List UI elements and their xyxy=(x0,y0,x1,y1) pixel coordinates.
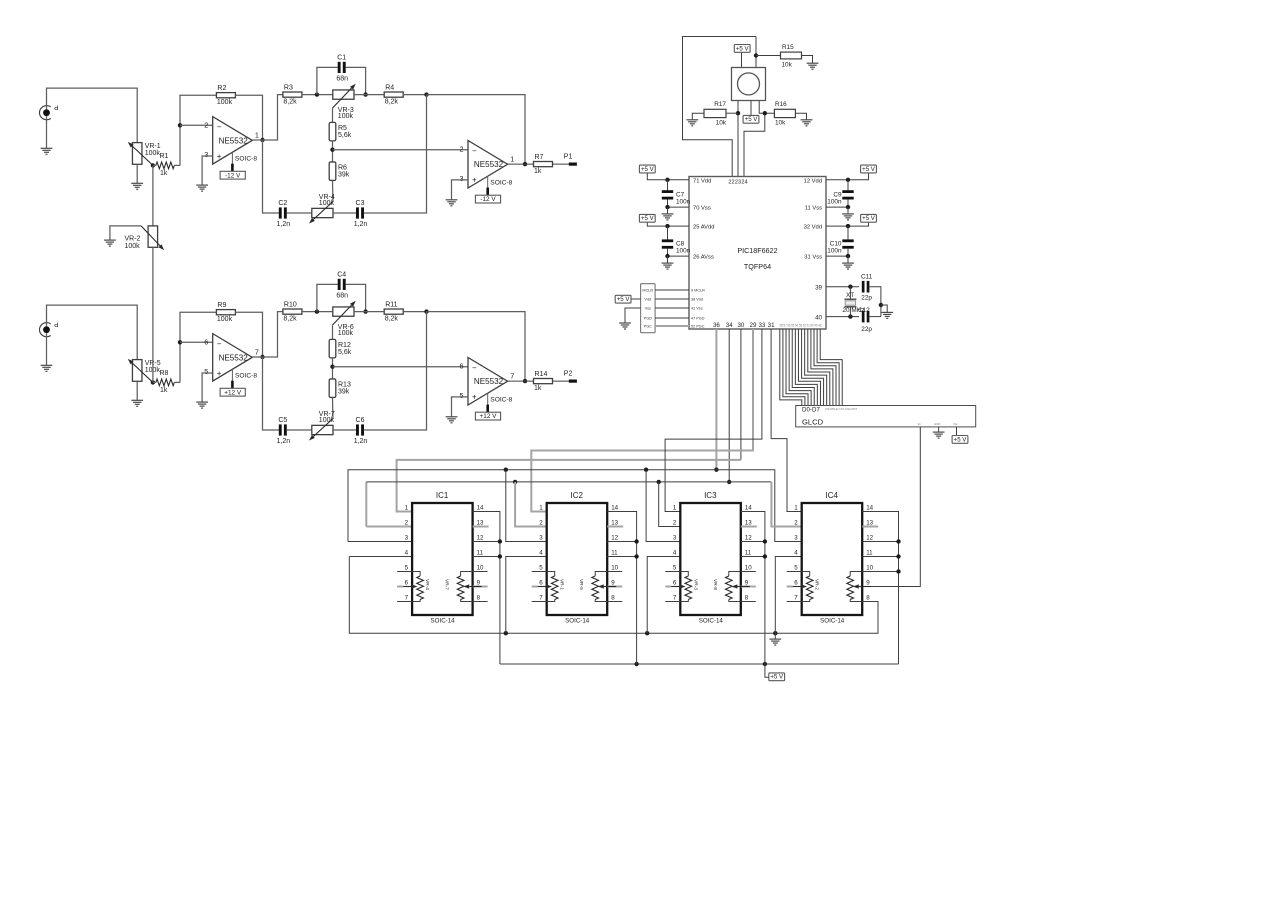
node xyxy=(714,468,718,472)
wire to terminal P1 xyxy=(553,163,569,165)
node C branch right xyxy=(363,309,367,313)
svg-text:8,2k: 8,2k xyxy=(385,316,399,323)
svg-text:VR-3: VR-3 xyxy=(692,579,698,590)
power +5V digipots xyxy=(769,673,785,681)
op-amp U1b NE5532 xyxy=(468,141,508,189)
svg-text:41 Vss: 41 Vss xyxy=(691,307,703,311)
svg-text:+5 V: +5 V xyxy=(641,215,655,222)
svg-text:SOIC-14: SOIC-14 xyxy=(431,618,456,625)
wire bus line 12 xyxy=(817,329,839,406)
ground xyxy=(104,239,116,241)
potentiometer VR-2 100k xyxy=(148,226,158,247)
wire Vdd32 to +5V xyxy=(826,223,869,227)
svg-text:58 57 56 55 54 53 52 51 50 49: 58 57 56 55 54 53 52 51 50 49 48 xyxy=(780,323,822,327)
ground xyxy=(446,416,458,418)
svg-text:1: 1 xyxy=(794,505,798,512)
svg-text:IC2: IC2 xyxy=(570,491,583,500)
svg-text:C11: C11 xyxy=(861,274,873,281)
svg-text:25 AVdd: 25 AVdd xyxy=(693,225,715,231)
wire R17 left to ground xyxy=(692,113,704,120)
svg-text:36: 36 xyxy=(713,322,720,329)
svg-text:P2: P2 xyxy=(564,370,573,377)
node xyxy=(763,539,767,543)
resistor R7 1k xyxy=(534,162,553,167)
svg-text:−: − xyxy=(217,340,222,349)
potentiometer VR-4 inside IC1 (left) xyxy=(412,572,420,577)
wire xyxy=(302,311,333,313)
node xyxy=(665,224,669,228)
ground xyxy=(131,399,143,401)
wire to inverting input xyxy=(180,95,217,165)
svg-text:100k: 100k xyxy=(338,113,354,120)
svg-text:10k: 10k xyxy=(716,120,727,127)
svg-text:10: 10 xyxy=(745,565,752,572)
svg-text:8: 8 xyxy=(745,595,749,602)
svg-text:C1: C1 xyxy=(337,54,346,61)
node top right xyxy=(424,309,428,313)
connector ICSP header xyxy=(641,284,656,333)
IC U5 PIC18F6622 TQFP64 xyxy=(689,177,826,330)
wire xyxy=(870,287,881,317)
node A junction xyxy=(736,111,740,115)
svg-text:R2: R2 xyxy=(217,85,226,92)
node feedback junction xyxy=(178,340,182,344)
svg-text:22p: 22p xyxy=(861,326,872,333)
svg-text:100k: 100k xyxy=(145,150,161,157)
wire xyxy=(647,223,689,227)
wire xyxy=(287,429,312,431)
svg-text:R4: R4 xyxy=(385,85,394,92)
svg-text:2: 2 xyxy=(673,520,677,527)
wire non-inverting input to ground xyxy=(202,373,213,402)
resistor R14 1k xyxy=(534,379,553,384)
potentiometer VR-6 100k xyxy=(333,307,354,316)
wire pin40 xyxy=(826,316,859,318)
wire xyxy=(646,470,680,542)
svg-text:52 PGC: 52 PGC xyxy=(691,325,705,329)
svg-text:1k: 1k xyxy=(160,170,168,177)
svg-text:+12 V: +12 V xyxy=(224,389,242,396)
wire to second opamp inverting input xyxy=(333,149,469,151)
ground xyxy=(847,256,849,263)
svg-text:IC3: IC3 xyxy=(704,491,717,500)
node xyxy=(846,178,850,182)
ground xyxy=(196,184,208,186)
svg-text:4: 4 xyxy=(405,550,409,557)
svg-text:23: 23 xyxy=(735,180,741,186)
wire bus line 1 xyxy=(783,329,805,406)
node wiper junction xyxy=(151,380,155,384)
resistor R17 10k xyxy=(704,109,726,117)
svg-text:1,2n: 1,2n xyxy=(276,221,290,228)
wire bus line 3 xyxy=(789,329,811,406)
svg-text:12: 12 xyxy=(866,535,873,542)
svg-text:5: 5 xyxy=(794,565,798,572)
wire bus line 10 xyxy=(811,329,833,406)
svg-text:9: 9 xyxy=(866,580,870,587)
svg-text:38 Vdd: 38 Vdd xyxy=(691,298,703,302)
wire rail to top node xyxy=(364,312,427,430)
svg-text:22: 22 xyxy=(728,180,734,186)
svg-text:SOIC-14: SOIC-14 xyxy=(565,618,590,625)
svg-text:2: 2 xyxy=(794,520,798,527)
power +5V Vdd32 xyxy=(861,214,877,222)
wire IC4 pin9 to GLCD Vo xyxy=(862,427,920,587)
svg-text:3: 3 xyxy=(460,174,464,183)
svg-text:11: 11 xyxy=(866,550,873,557)
node xyxy=(727,480,731,484)
module GLCD xyxy=(796,406,976,427)
svg-text:100n: 100n xyxy=(676,198,691,205)
svg-text:1,2n: 1,2n xyxy=(276,438,290,445)
svg-text:12: 12 xyxy=(745,535,752,542)
capacitor C1 68n xyxy=(317,67,338,94)
op-amp U2b NE5532 xyxy=(468,358,508,406)
wire ground rail pin4s xyxy=(349,557,878,634)
svg-text:NE5532: NE5532 xyxy=(474,160,504,169)
svg-text:2: 2 xyxy=(460,144,464,153)
wire Vdd12 to +5V xyxy=(826,173,869,180)
node mid divider xyxy=(330,365,334,369)
svg-text:10: 10 xyxy=(477,565,484,572)
node output junction xyxy=(260,138,264,142)
wire IC2 pin14/12/11 bus to +5V rail xyxy=(607,512,636,665)
svg-text:C3: C3 xyxy=(356,200,365,207)
ground xyxy=(667,256,669,263)
wire VR-2 wiper to ground xyxy=(110,226,141,240)
svg-text:NE5532: NE5532 xyxy=(219,136,249,145)
svg-text:1,2n: 1,2n xyxy=(354,438,368,445)
svg-text:29: 29 xyxy=(750,322,757,329)
svg-text:SOIC-8: SOIC-8 xyxy=(235,155,257,162)
node xyxy=(498,554,502,558)
wire to output xyxy=(427,95,526,165)
node xyxy=(498,539,502,543)
wire Vss11 xyxy=(826,206,848,208)
svg-text:IC1: IC1 xyxy=(436,491,449,500)
node IC2 pin4 tap xyxy=(504,631,508,635)
svg-text:C5: C5 xyxy=(278,417,287,424)
wire PIC pin34 to pin2 rail xyxy=(728,329,730,482)
svg-text:+: + xyxy=(217,369,222,378)
wire Vss70 xyxy=(668,206,690,208)
resistor R2 100k feedback xyxy=(216,93,235,98)
svg-text:3: 3 xyxy=(794,535,798,542)
ground xyxy=(667,207,669,214)
svg-text:R1: R1 xyxy=(160,153,169,160)
ground xyxy=(619,322,631,324)
power +5V encoder mid xyxy=(743,115,759,123)
svg-text:−: − xyxy=(472,146,477,155)
wire pin12 stub xyxy=(473,541,500,543)
node C branch left xyxy=(315,92,319,96)
power +5V encoder top xyxy=(734,45,750,53)
ground xyxy=(131,182,143,184)
node xyxy=(665,205,669,209)
resistor R9 100k feedback xyxy=(216,310,235,315)
ground xyxy=(686,119,698,121)
svg-text:MCLR: MCLR xyxy=(642,288,653,292)
svg-text:R9: R9 xyxy=(217,302,226,309)
svg-text:4: 4 xyxy=(539,550,543,557)
resistor R12 5.6k xyxy=(329,339,336,358)
svg-text:+5 V: +5 V xyxy=(770,674,784,681)
svg-text:11 Vss: 11 Vss xyxy=(805,206,822,212)
wire IC4 pin14/12/11 bus to +5V rail xyxy=(862,512,898,665)
svg-text:VR-2: VR-2 xyxy=(125,236,141,243)
power +5V Vdd71 xyxy=(639,165,655,173)
svg-text:100k: 100k xyxy=(125,243,141,250)
svg-text:+5 V: +5 V xyxy=(736,45,750,52)
wire VR-2 down to channel 2 input node xyxy=(152,247,154,382)
wire bus line 5 xyxy=(795,329,817,406)
svg-text:R14: R14 xyxy=(535,371,548,378)
svg-text:-12 V: -12 V xyxy=(225,172,241,179)
svg-text:100k: 100k xyxy=(338,330,354,337)
resistor R1 1k xyxy=(153,164,156,166)
ground xyxy=(41,147,53,149)
node encoder sw junction xyxy=(754,53,758,57)
svg-text:4: 4 xyxy=(673,550,677,557)
wire xyxy=(631,298,640,300)
wire jack to VR-1 xyxy=(47,88,138,143)
svg-text:VR-1: VR-1 xyxy=(559,579,565,590)
svg-text:2: 2 xyxy=(204,121,208,130)
svg-text:+5 V: +5 V xyxy=(862,215,876,222)
wire PIC pin30 to IC1 pin1 xyxy=(740,329,742,460)
svg-text:R8: R8 xyxy=(160,370,169,377)
ground xyxy=(196,401,208,403)
wire to inverting input xyxy=(180,312,217,382)
svg-text:P: P xyxy=(54,104,58,111)
svg-text:RS RW E CS1 CS2 RST: RS RW E CS1 CS2 RST xyxy=(826,407,858,411)
op-amp U1a NE5532 xyxy=(213,117,253,165)
wire Vss31 xyxy=(826,255,848,257)
rotary encoder body xyxy=(732,68,766,101)
IC IC1 digital potentiometer SOIC-14 xyxy=(412,503,473,615)
svg-text:Vdd: Vdd xyxy=(644,297,651,301)
wire xyxy=(765,664,769,677)
wire bus line 2 xyxy=(786,329,808,406)
potentiometer VR-1 inside IC2 (left) xyxy=(547,572,555,577)
node IC3 pin3 tap xyxy=(644,468,648,472)
node output junction 2 xyxy=(523,379,527,383)
svg-text:SOIC-8: SOIC-8 xyxy=(490,396,512,403)
power +5V AVdd25 xyxy=(639,214,655,222)
svg-text:SOIC-8: SOIC-8 xyxy=(490,179,512,186)
wire output to tone stage xyxy=(252,139,262,141)
potentiometer VR-3 inside IC3 (left) xyxy=(680,572,688,577)
node IC2 pin2 tap xyxy=(513,480,517,484)
node output junction xyxy=(260,355,264,359)
wire bus line 8 xyxy=(805,329,827,406)
terminal P2 xyxy=(569,380,577,383)
svg-text:5: 5 xyxy=(673,565,677,572)
svg-text:7: 7 xyxy=(255,347,259,356)
capacitor C9 100n xyxy=(847,180,849,192)
svg-text:+: + xyxy=(472,176,477,185)
svg-text:1: 1 xyxy=(539,505,543,512)
svg-text:7: 7 xyxy=(510,371,514,380)
crystal X1 20MHz xyxy=(849,287,851,299)
svg-text:R3: R3 xyxy=(284,85,293,92)
wire pin39 xyxy=(826,286,859,288)
svg-text:5,6k: 5,6k xyxy=(338,132,352,139)
ground xyxy=(881,311,893,313)
svg-text:VR-5: VR-5 xyxy=(578,579,584,590)
svg-text:40: 40 xyxy=(815,314,822,321)
wire pin12 stub xyxy=(607,541,636,543)
svg-text:6: 6 xyxy=(794,580,798,587)
wire bus line 6 xyxy=(798,329,820,406)
wire PIC pin33 to IC3 pin1 xyxy=(665,329,762,512)
svg-text:14: 14 xyxy=(745,505,752,512)
svg-text:2: 2 xyxy=(539,520,543,527)
wire PIC pin36 to pot bus pin3 rail xyxy=(715,329,717,470)
wire xyxy=(775,557,801,634)
wire output xyxy=(508,380,534,382)
wire pin+ to ground xyxy=(452,180,469,200)
wire R17 to node xyxy=(726,112,738,114)
node xyxy=(846,205,850,209)
node IC3 bus / +5V box tap xyxy=(763,662,767,666)
svg-text:8: 8 xyxy=(611,595,615,602)
node IC3 pin2 tap xyxy=(657,480,661,484)
svg-text:11: 11 xyxy=(745,550,752,557)
svg-text:GLCD: GLCD xyxy=(802,418,824,427)
svg-text:-12 V: -12 V xyxy=(480,196,496,203)
svg-text:14: 14 xyxy=(477,505,484,512)
svg-text:R17: R17 xyxy=(714,101,726,108)
wire pin11 stub xyxy=(473,556,500,558)
wire PIC pin31 to IC4 pin1 xyxy=(771,329,802,512)
potentiometer VR-7 100k xyxy=(312,425,333,434)
svg-text:7: 7 xyxy=(673,595,677,602)
wire IC4 pin8 lead xyxy=(862,601,878,603)
svg-text:6: 6 xyxy=(204,338,208,347)
svg-text:6: 6 xyxy=(539,580,543,587)
wire xyxy=(506,470,547,542)
svg-text:14: 14 xyxy=(866,505,873,512)
resistor R13 39k xyxy=(329,379,336,398)
svg-text:100n: 100n xyxy=(827,248,842,255)
svg-text:XT: XT xyxy=(846,292,854,299)
wire R15 to ground xyxy=(802,56,813,64)
wire xyxy=(287,212,312,214)
svg-text:C4: C4 xyxy=(337,271,346,278)
svg-text:6: 6 xyxy=(405,580,409,587)
svg-text:2: 2 xyxy=(405,520,409,527)
resistor R3 8.2k xyxy=(283,92,302,97)
svg-text:30: 30 xyxy=(737,322,744,329)
potentiometer VR-8 inside IC3 (right) xyxy=(729,572,741,577)
capacitor C7 100n xyxy=(667,180,669,192)
power +5V ICSP xyxy=(615,295,631,303)
wire xyxy=(741,53,743,68)
node xyxy=(896,539,900,543)
svg-text:Vo: Vo xyxy=(918,422,922,426)
svg-text:−: − xyxy=(217,123,222,132)
wire VR-6 wiper chain xyxy=(332,325,334,339)
node C branch left xyxy=(315,309,319,313)
node xyxy=(896,554,900,558)
svg-text:SOIC-8: SOIC-8 xyxy=(235,372,257,379)
svg-text:20 MHz: 20 MHz xyxy=(843,307,865,314)
wire jack to VR-5 xyxy=(47,305,138,360)
wire VR-1 to ground xyxy=(136,164,138,183)
svg-text:3: 3 xyxy=(405,535,409,542)
svg-text:11: 11 xyxy=(477,550,484,557)
svg-text:D0-D7: D0-D7 xyxy=(802,406,820,413)
wire encoder A to PIC pin 23 xyxy=(737,101,739,177)
wire PIC pin29 to IC2 pin1 xyxy=(531,329,753,512)
wire pin11 stub xyxy=(607,556,636,558)
svg-text:5: 5 xyxy=(405,565,409,572)
svg-text:1k: 1k xyxy=(160,387,168,394)
svg-text:NE5532: NE5532 xyxy=(474,377,504,386)
svg-text:R10: R10 xyxy=(284,302,297,309)
svg-text:PGC: PGC xyxy=(644,324,652,328)
capacitor C10 100n xyxy=(847,226,849,240)
wire to ground xyxy=(881,305,887,312)
node xyxy=(848,314,852,318)
svg-text:SOIC-14: SOIC-14 xyxy=(699,618,724,625)
wire bottom rail xyxy=(263,140,280,213)
wire bus line 13 xyxy=(820,329,842,406)
power +5V GLCD xyxy=(952,436,968,444)
potentiometer VR-3 100k xyxy=(333,90,354,99)
capacitor C11 22p xyxy=(862,281,865,293)
svg-text:1: 1 xyxy=(405,505,409,512)
resistor R5 5.6k xyxy=(329,122,336,141)
node xyxy=(634,554,638,558)
wire pin2 xyxy=(180,124,213,126)
svg-text:R15: R15 xyxy=(782,44,794,51)
wire bus line 9 xyxy=(808,329,830,406)
svg-text:+5 V: +5 V xyxy=(617,296,631,303)
node xyxy=(665,254,669,258)
wire bus line 11 xyxy=(814,329,836,406)
svg-text:32 Vdd: 32 Vdd xyxy=(804,225,822,231)
wire xyxy=(647,173,689,180)
wire Vss to ground xyxy=(625,308,641,323)
svg-text:Vcc: Vcc xyxy=(953,422,958,426)
svg-text:+: + xyxy=(217,152,222,161)
wire pin+ to ground xyxy=(452,397,469,417)
svg-text:7: 7 xyxy=(794,595,798,602)
svg-text:R16: R16 xyxy=(775,101,787,108)
svg-text:IC4: IC4 xyxy=(825,491,838,500)
svg-text:1: 1 xyxy=(510,154,514,163)
potentiometer VR-5 100k xyxy=(132,360,142,382)
wire r4 to fb node xyxy=(403,311,426,313)
ground xyxy=(446,199,458,201)
svg-text:5,6k: 5,6k xyxy=(338,349,352,356)
wire MCLR to PIC xyxy=(655,289,689,291)
ground xyxy=(847,207,849,214)
wire xyxy=(333,212,356,214)
svg-text:71 Vdd: 71 Vdd xyxy=(693,178,711,184)
svg-text:34: 34 xyxy=(726,322,733,329)
wire Vss to PIC xyxy=(655,307,689,309)
svg-text:5: 5 xyxy=(460,391,464,400)
svg-text:12 Vdd: 12 Vdd xyxy=(804,178,822,184)
ground xyxy=(41,364,53,366)
wire VR-5 to ground xyxy=(136,381,138,400)
svg-text:11: 11 xyxy=(611,550,618,557)
wire pin10 stub to bus xyxy=(862,571,898,573)
wire xyxy=(506,557,547,634)
